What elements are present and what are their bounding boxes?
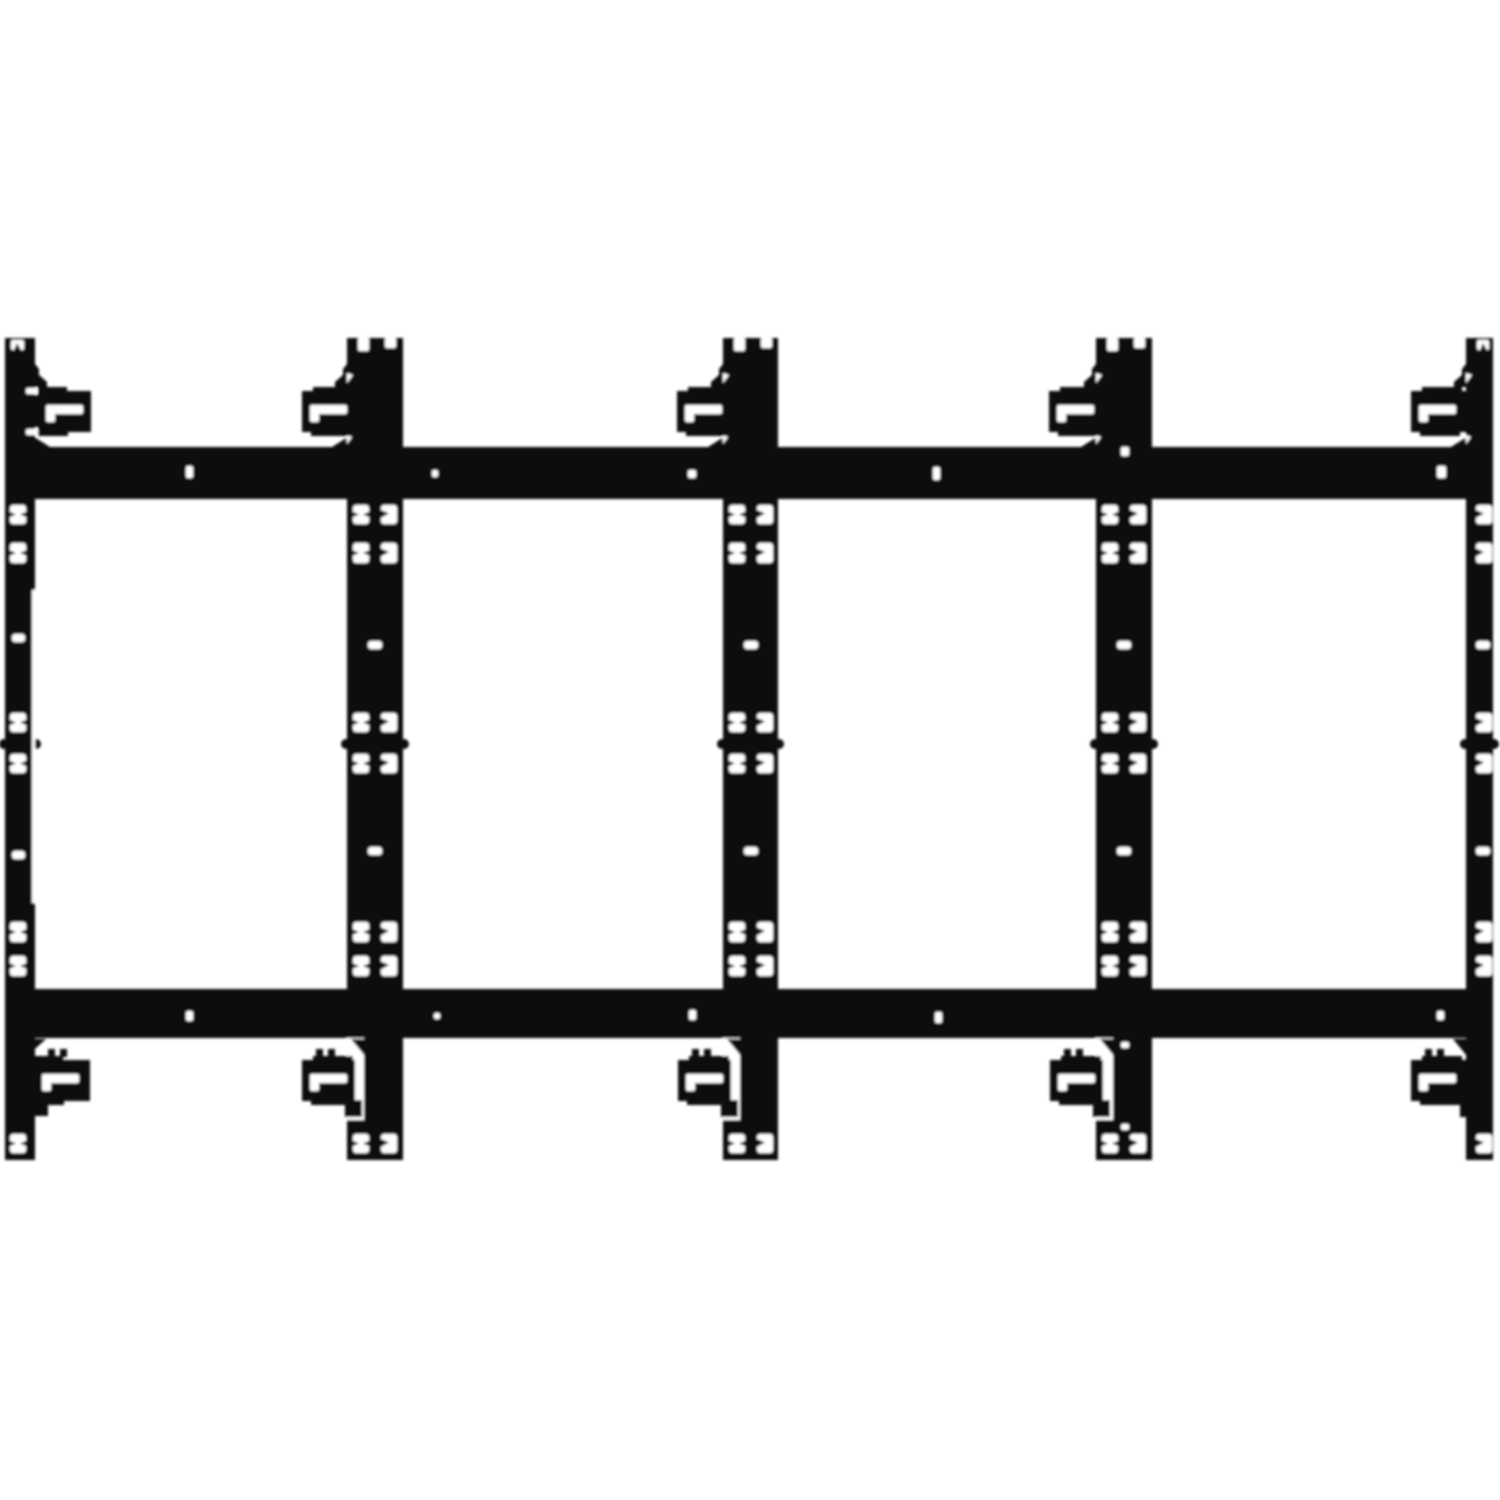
top crossbar — [5, 447, 1491, 499]
bottom mounting clip B9 — [1050, 1049, 1110, 1117]
vertical rail R3 — [717, 338, 784, 1160]
rail R4 weld dots — [1121, 447, 1129, 1130]
bottom mounting clip B7 — [302, 1049, 362, 1117]
top mounting clip B3 — [677, 387, 736, 436]
rail R4 jag spikes — [1081, 364, 1114, 1056]
rail R3 jag spikes — [708, 364, 741, 1056]
rail R1 jag spikes — [26, 364, 50, 1056]
top mounting clip B5 — [1411, 387, 1470, 436]
top mounting clip B2 — [302, 387, 361, 436]
bottom mounting clip B8 — [678, 1049, 738, 1117]
vertical rail R2 — [341, 338, 409, 1160]
rail R5 jag spikes — [1451, 364, 1472, 1056]
top mounting clip B4 — [1049, 387, 1108, 436]
bottom mounting clip B10 — [1411, 1049, 1477, 1117]
vertical rail R4 — [1090, 338, 1158, 1160]
bottom crossbar — [8, 989, 1492, 1038]
bottom mounting clip B6 — [28, 1049, 90, 1116]
rail R2 jag spikes — [332, 364, 365, 1056]
bottom crossbar rivet marks — [186, 1010, 1444, 1023]
top mounting clip B1 — [32, 387, 91, 436]
vertical rail R5 — [1460, 338, 1499, 1160]
top crossbar rivet marks — [186, 466, 1446, 480]
vertical rail R1 — [0, 338, 41, 1160]
